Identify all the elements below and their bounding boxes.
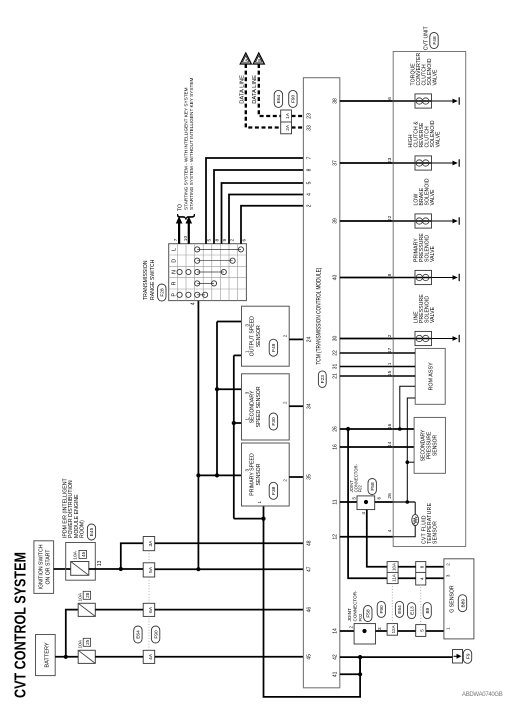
- wire range switch 9 to TCM 5: [222, 183, 304, 244]
- svg-text:17: 17: [387, 347, 393, 353]
- svg-text:14: 14: [387, 441, 393, 447]
- low brake solenoid valve: [393, 178, 459, 228]
- svg-text:28: 28: [85, 592, 90, 598]
- wire range switch 2 to TCM 4: [229, 195, 303, 244]
- wire TCM 31 to CVT 1: [340, 366, 393, 368]
- wire ROM pin5 bus to sensor and temp node: [406, 398, 416, 504]
- svg-text:SENSOR: SENSOR: [432, 521, 438, 544]
- svg-text:9: 9: [222, 239, 228, 242]
- arrow to starting system 2, pin 10: [183, 216, 192, 244]
- wire TCM 12 to CVT 4: [340, 536, 393, 538]
- wire TCM 40 to CVT 9: [340, 277, 393, 279]
- battery: [36, 635, 56, 676]
- svg-text:10: 10: [183, 236, 189, 242]
- svg-text:P: P: [171, 293, 177, 297]
- svg-text:37: 37: [333, 160, 339, 166]
- fuse 10A 45 in IPDM: [71, 550, 89, 575]
- wire range switch 8 to TCM 8: [214, 170, 303, 244]
- svg-text:5: 5: [306, 181, 312, 184]
- wire 10A to 8 to G sensor 2: [398, 566, 444, 568]
- TCM label: [316, 268, 326, 388]
- wire TCM 21 to CVT 15: [340, 375, 393, 377]
- pin 13 IPDM: [97, 560, 103, 566]
- wire ground bus left: [264, 519, 361, 697]
- svg-text:E45: E45: [89, 527, 95, 536]
- svg-text:TRANSMISSION: TRANSMISSION: [143, 260, 149, 300]
- wire TCM 26 to CVT 16: [340, 427, 393, 431]
- svg-text:21: 21: [333, 373, 339, 379]
- secondary pressure sensor: [414, 417, 445, 473]
- connector labels E64 F90 data line: [274, 90, 297, 107]
- svg-text:35: 35: [306, 474, 312, 480]
- svg-text:7: 7: [173, 238, 179, 241]
- svg-text:8: 8: [419, 565, 424, 568]
- svg-text:10A: 10A: [391, 563, 396, 571]
- ground connector F9: [453, 649, 472, 663]
- svg-text:5A: 5A: [148, 566, 154, 573]
- svg-text:TCM (TRANSMISSION CONTROL MODU: TCM (TRANSMISSION CONTROL MODULE): [316, 268, 322, 365]
- wire speed sensor pin1 bus: [232, 355, 266, 520]
- svg-text:PRIMARY SPEED: PRIMARY SPEED: [250, 453, 256, 496]
- wire primary sensor 2 to TCM 35: [289, 476, 303, 478]
- svg-text:4: 4: [387, 529, 393, 532]
- svg-text:A: A: [244, 59, 249, 62]
- svg-text:12A: 12A: [391, 625, 396, 633]
- wire battery feed: [55, 655, 78, 659]
- high clutch and reverse clutch solenoid valve: [393, 120, 459, 170]
- wire TCM 16 to CVT 14: [340, 446, 393, 448]
- ignition switch ON or START: [34, 541, 54, 594]
- ground bus pins 41 42: [359, 657, 361, 674]
- wire fuse25 to 4A to TCM pin 45: [95, 656, 303, 658]
- svg-text:15: 15: [387, 370, 393, 376]
- svg-text:6: 6: [377, 497, 382, 500]
- range switch pin 4 label: [191, 302, 197, 305]
- svg-text:F90: F90: [291, 94, 297, 103]
- svg-text:42: 42: [333, 654, 339, 660]
- svg-text:38: 38: [333, 98, 339, 104]
- svg-text:2: 2: [349, 626, 354, 629]
- svg-text:B89: B89: [460, 599, 466, 608]
- svg-text:BATTERY: BATTERY: [45, 642, 51, 668]
- IPDM E/R box: [66, 543, 96, 581]
- svg-text:34: 34: [306, 403, 312, 409]
- svg-text:SENSOR: SENSOR: [433, 434, 439, 456]
- svg-text:4: 4: [191, 302, 197, 305]
- TCM bottom pin numbers: [333, 98, 339, 677]
- joint connector F02 F58 upper: [349, 463, 381, 514]
- svg-text:2: 2: [283, 479, 288, 482]
- svg-text:16: 16: [333, 444, 339, 450]
- svg-text:VALVE: VALVE: [435, 131, 441, 148]
- svg-text:ON OR START: ON OR START: [46, 549, 52, 585]
- svg-text:11A: 11A: [391, 574, 396, 582]
- wire F02 lower to 12A to 5 to G sensor 1: [376, 630, 444, 632]
- svg-text:11: 11: [333, 499, 339, 504]
- wire data line A to 2A to TCM 33: [246, 64, 304, 128]
- svg-text:RANGE SWITCH: RANGE SWITCH: [150, 259, 156, 300]
- wire 3A to TCM pin 48: [155, 542, 304, 544]
- wire output sensor 2 to TCM 24: [289, 338, 303, 340]
- svg-text:40: 40: [333, 275, 339, 281]
- svg-text:41: 41: [333, 671, 339, 677]
- svg-text:CVT UNIT: CVT UNIT: [424, 26, 430, 51]
- range switch label: [143, 259, 166, 301]
- svg-text:D: D: [171, 259, 177, 263]
- svg-text:22: 22: [387, 215, 393, 221]
- wire TCM 38 to CVT 6: [340, 100, 393, 102]
- svg-text:G SENSOR: G SENSOR: [450, 585, 456, 613]
- svg-text:{: {: [175, 213, 196, 220]
- wire temp sensor to CVT 4: [393, 526, 415, 537]
- svg-text:33: 33: [306, 125, 312, 131]
- svg-text:2: 2: [283, 401, 288, 404]
- svg-text:6: 6: [241, 239, 247, 242]
- svg-text:46: 46: [306, 607, 312, 613]
- svg-text:F90: F90: [153, 630, 159, 639]
- connector 8 4: [416, 562, 426, 585]
- svg-text:F58: F58: [370, 482, 376, 491]
- svg-text:23: 23: [306, 113, 312, 119]
- wire F02 pin 4 to 10A: [367, 510, 387, 567]
- svg-text:3: 3: [377, 627, 382, 630]
- arrow to starting system 1, pin 7: [173, 216, 182, 244]
- svg-text:F02: F02: [358, 613, 363, 621]
- svg-text:VALVE: VALVE: [430, 306, 436, 323]
- wire data line B to 1A to TCM 23: [259, 64, 304, 116]
- ROM assy: [415, 348, 445, 404]
- svg-text:F48: F48: [432, 36, 438, 45]
- svg-text:10A: 10A: [78, 592, 84, 601]
- svg-text:N: N: [171, 270, 177, 274]
- svg-text:VALVE: VALVE: [433, 69, 439, 86]
- svg-text:23: 23: [387, 157, 393, 163]
- label to starting system: [175, 78, 196, 220]
- svg-text:F02: F02: [358, 485, 363, 493]
- svg-text:26: 26: [387, 493, 393, 499]
- svg-text:30: 30: [333, 336, 339, 342]
- svg-text:10A: 10A: [78, 639, 84, 648]
- connector triangle A: [240, 53, 251, 64]
- wire TCM 39 to CVT 22: [340, 220, 393, 222]
- svg-text:6A: 6A: [148, 606, 154, 613]
- label data line 2: [252, 75, 258, 104]
- wire sensor supply bus: [196, 301, 200, 570]
- svg-text:4: 4: [361, 512, 366, 515]
- svg-text:STARTING SYSTEM - WITH INTELLI: STARTING SYSTEM - WITH INTELLIGENT KEY S…: [184, 87, 189, 210]
- dotted link 12A to 11A: [391, 584, 393, 624]
- svg-text:1A: 1A: [285, 112, 291, 119]
- svg-text:F58: F58: [366, 609, 372, 618]
- wire range switch 5 to TCM 7: [206, 158, 303, 244]
- wire 11A to 4 to G sensor 3: [398, 577, 444, 579]
- svg-text:9: 9: [387, 273, 393, 276]
- wire TCM 22 to CVT 17: [340, 352, 393, 354]
- svg-text:2: 2: [229, 239, 235, 242]
- svg-text:STARTING SYSTEM - WITHOUT INTE: STARTING SYSTEM - WITHOUT INTELLIGENT KE…: [189, 78, 194, 210]
- TCM top pin numbers: [306, 113, 312, 660]
- connector triangle B: [253, 53, 264, 64]
- range switch contacts: [177, 247, 243, 298]
- svg-text:F28: F28: [160, 288, 166, 297]
- fuse 10A 28: [78, 591, 96, 616]
- svg-text:OUTPUT SPEED: OUTPUT SPEED: [250, 316, 256, 357]
- wire fuse28 to 6A to TCM pin 46: [95, 609, 303, 611]
- svg-text:25: 25: [85, 639, 90, 645]
- svg-text:4: 4: [306, 193, 312, 196]
- wire speed sensor pin3 bus: [198, 322, 241, 478]
- wire secondary sensor 2 to TCM 34: [289, 405, 303, 407]
- svg-text:3: 3: [245, 469, 250, 472]
- connector 4A: [143, 650, 155, 663]
- svg-text:SENSOR: SENSOR: [256, 325, 262, 347]
- wire F02 to CVT 26: [375, 501, 394, 503]
- fuse 10A 25: [78, 638, 96, 663]
- wire IPDM output: [89, 567, 143, 571]
- svg-text:26: 26: [333, 426, 339, 432]
- svg-text:2: 2: [387, 334, 393, 337]
- svg-text:48: 48: [306, 540, 312, 546]
- svg-text:F49: F49: [271, 343, 277, 352]
- connector 12A: [387, 624, 397, 636]
- svg-text:45: 45: [81, 551, 86, 557]
- wire CVT 26 to fluid temperature sensor: [393, 502, 415, 514]
- CVT unit box F48: [393, 52, 466, 547]
- svg-text:R: R: [171, 281, 177, 285]
- primary pressure solenoid valve: [393, 233, 459, 285]
- svg-text:13: 13: [97, 560, 103, 566]
- svg-text:F90: F90: [379, 605, 385, 614]
- svg-text:CVT CONTROL SYSTEM: CVT CONTROL SYSTEM: [13, 552, 30, 698]
- wire CVT16 to secondary pressure sensor: [393, 428, 414, 430]
- connector 5: [416, 625, 426, 637]
- svg-text:10A: 10A: [73, 550, 79, 559]
- svg-text:E64: E64: [276, 94, 282, 103]
- title CVT CONTROL SYSTEM: [13, 552, 30, 698]
- svg-text:IGNITION SWITCH: IGNITION SWITCH: [39, 544, 45, 589]
- dotted link 5 to 4: [420, 585, 422, 625]
- svg-text:VALVE: VALVE: [430, 189, 436, 206]
- svg-text:SPEED SENSOR: SPEED SENSOR: [256, 386, 262, 427]
- svg-text:CONNECTOR-: CONNECTOR-: [352, 590, 357, 622]
- svg-text:8: 8: [306, 168, 312, 171]
- wire 5A to TCM pin 47: [155, 567, 304, 571]
- primary speed sensor F38: [242, 443, 290, 506]
- svg-text:24: 24: [306, 336, 312, 342]
- svg-text:1: 1: [257, 501, 262, 504]
- svg-text:E64: E64: [136, 630, 142, 639]
- wire CVT16 node to ROM pin 4: [398, 386, 415, 431]
- G sensor B89: [444, 559, 474, 639]
- wire TCM 42 to ground F9: [340, 655, 453, 659]
- wire ignition to IPDM: [54, 568, 71, 570]
- wire TCM 30 to CVT 2: [340, 338, 393, 340]
- svg-text:E13: E13: [409, 606, 415, 615]
- output speed sensor F49: [242, 306, 290, 366]
- svg-text:7: 7: [306, 156, 312, 159]
- svg-text:F23: F23: [320, 375, 326, 384]
- svg-text:E64: E64: [397, 605, 403, 614]
- svg-text:14: 14: [333, 628, 339, 634]
- connector labels E64 F90: [134, 626, 160, 643]
- svg-text:SECONDARY: SECONDARY: [250, 390, 256, 423]
- svg-text:B: B: [257, 59, 262, 62]
- svg-text:1: 1: [245, 350, 250, 353]
- connector labels F90 E64 E113 B9: [377, 601, 431, 618]
- svg-text:2: 2: [306, 204, 312, 207]
- svg-text:5: 5: [352, 497, 357, 500]
- svg-text:8: 8: [214, 239, 220, 242]
- joint connector F02 F58 lower: [347, 590, 382, 644]
- connector 5A: [143, 563, 155, 577]
- wire branch to connector 3A: [121, 543, 143, 569]
- label data line 1: [239, 75, 245, 104]
- svg-text:3: 3: [245, 391, 250, 394]
- svg-text:2: 2: [446, 563, 451, 566]
- CVT unit pin numbers: [387, 97, 393, 533]
- svg-text:ROOM): ROOM): [80, 520, 86, 538]
- wire TCM 37 to CVT 23: [340, 162, 393, 164]
- CVT unit label: [424, 26, 439, 51]
- connector 1A 2A: [281, 110, 292, 134]
- connector 3A: [143, 537, 155, 551]
- connector 10A 11A: [387, 562, 398, 584]
- svg-text:5: 5: [419, 629, 424, 632]
- wire CVT 17 1 15 into ROM: [393, 353, 415, 376]
- connector 6A: [143, 603, 155, 616]
- line pressure solenoid valve: [393, 294, 459, 346]
- TCM box: [303, 78, 339, 688]
- torque converter clutch solenoid valve: [393, 52, 459, 108]
- svg-text:22: 22: [333, 350, 339, 356]
- svg-text:16: 16: [387, 423, 393, 429]
- svg-text:31: 31: [333, 364, 339, 370]
- wire range switch 6 to TCM 2: [241, 206, 303, 244]
- svg-text:45: 45: [306, 654, 312, 660]
- svg-text:TO: TO: [178, 204, 184, 211]
- wire battery branch to fuse 28: [66, 610, 78, 657]
- wire TCM 14 to joint connector F02 lower: [340, 630, 354, 632]
- svg-text:VALVE: VALVE: [430, 245, 436, 262]
- svg-text:3: 3: [446, 574, 451, 577]
- CVT fluid temperature sensor: [412, 502, 439, 544]
- secondary speed sensor F30: [242, 374, 290, 440]
- svg-text:5: 5: [206, 239, 212, 242]
- svg-text:12: 12: [333, 534, 339, 540]
- svg-text:DATA LINE: DATA LINE: [252, 75, 258, 104]
- svg-text:2A: 2A: [285, 124, 291, 131]
- connector E64 F90 dotted link: [148, 551, 150, 651]
- IPDM E/R label: [63, 478, 96, 540]
- svg-text:2: 2: [283, 334, 288, 337]
- wire TCM 41 to ground bus: [340, 672, 362, 676]
- wire TCM 11 to joint connector F02: [340, 501, 357, 503]
- svg-text:DATA LINE: DATA LINE: [239, 75, 245, 104]
- svg-text:F9: F9: [465, 653, 471, 659]
- svg-text:1: 1: [387, 362, 393, 365]
- svg-text:1: 1: [446, 627, 451, 630]
- svg-text:JOINT: JOINT: [347, 608, 352, 621]
- svg-text:F30: F30: [271, 417, 277, 426]
- svg-text:3A: 3A: [148, 540, 154, 547]
- svg-text:39: 39: [333, 218, 339, 224]
- svg-text:47: 47: [306, 566, 312, 572]
- svg-text:1: 1: [245, 418, 250, 421]
- svg-text:ROM ASSY: ROM ASSY: [429, 362, 435, 391]
- wire primary sensor pin1: [263, 506, 265, 519]
- svg-text:B9: B9: [425, 607, 431, 613]
- wire CVT14 to secondary pressure sensor: [393, 446, 414, 448]
- transmission range switch F28 grid: [169, 244, 247, 301]
- svg-text:F38: F38: [271, 486, 277, 495]
- svg-text:4A: 4A: [148, 653, 154, 660]
- svg-text:4: 4: [419, 577, 424, 580]
- svg-text:3: 3: [245, 324, 250, 327]
- svg-text:6: 6: [387, 97, 393, 100]
- svg-text:SENSOR: SENSOR: [256, 463, 262, 485]
- wire TCM 26 branch to 11A: [348, 429, 387, 578]
- svg-text:L: L: [171, 248, 177, 251]
- watermark: [462, 692, 503, 698]
